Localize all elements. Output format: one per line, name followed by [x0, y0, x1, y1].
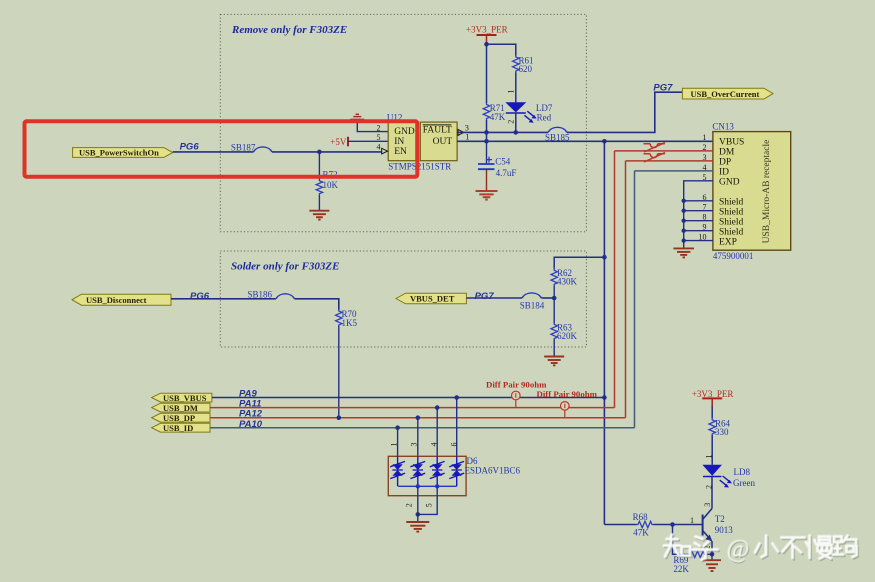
- wire LD7 to FAULT row: [515, 113, 517, 132]
- wire ID vertical: [634, 171, 636, 428]
- wire R71 branch: [486, 44, 488, 103]
- svg-text:Green: Green: [733, 478, 755, 488]
- node base R69 tap: [670, 522, 675, 527]
- svg-text:USB_VBUS: USB_VBUS: [163, 393, 207, 403]
- TVS diode D6 cell 4: [449, 456, 464, 486]
- LED LD8: [702, 465, 732, 488]
- wire VBUS_DET to SB184: [466, 297, 522, 299]
- svg-text:@: @: [727, 536, 750, 563]
- flag USB_DP: [152, 413, 210, 423]
- solder bridge SB185: [545, 127, 570, 142]
- svg-text:475900001: 475900001: [713, 251, 754, 261]
- svg-text:PG7: PG7: [653, 83, 673, 94]
- wire PG6 to SB187: [173, 151, 254, 153]
- svg-text:Solder only for F303ZE: Solder only for F303ZE: [231, 261, 339, 273]
- flag VBUS_DET: [396, 293, 466, 304]
- solder bridge SB187: [231, 143, 272, 153]
- svg-text:5: 5: [377, 133, 381, 142]
- svg-text:EXP: EXP: [719, 237, 737, 247]
- wire SB185 to corner and up to PG7 flag: [567, 92, 682, 132]
- wire SB187 to U12 EN: [272, 151, 382, 153]
- svg-text:GND: GND: [394, 127, 415, 137]
- svg-text:620: 620: [519, 64, 533, 74]
- wire SB186 to R70: [295, 299, 339, 310]
- node emitter ground: [710, 552, 715, 557]
- svg-text:DM: DM: [719, 148, 735, 158]
- svg-text:PG7: PG7: [475, 291, 495, 302]
- svg-text:Shield: Shield: [719, 218, 744, 228]
- node bus pin5: [435, 484, 439, 488]
- wire R64 to LD8: [711, 435, 713, 465]
- ground under CN13 shield: [673, 248, 694, 257]
- dashed region: Solder only for F303ZE: [220, 251, 586, 347]
- dashed region: Remove only for F303ZE: [220, 14, 586, 231]
- svg-text:USB_DP: USB_DP: [163, 413, 195, 423]
- svg-text:Shield: Shield: [719, 198, 744, 208]
- svg-text:SB186: SB186: [248, 290, 273, 300]
- node bus pin2: [416, 484, 420, 488]
- wire DP row PA12: [210, 417, 626, 419]
- svg-text:GND: GND: [719, 178, 740, 188]
- wire power node to R61 top: [487, 44, 516, 55]
- svg-text:Red: Red: [537, 113, 552, 123]
- ground under R63: [544, 357, 564, 366]
- svg-text:2: 2: [405, 503, 414, 507]
- directive circle DP pair: [561, 402, 570, 418]
- wire C54 branch: [486, 141, 488, 163]
- transistor T2 9013: [703, 509, 734, 542]
- wire node to R63: [553, 298, 555, 323]
- svg-text:PG6: PG6: [180, 141, 200, 152]
- wire USB_Disconnect to SB186: [171, 298, 276, 300]
- ground under R72: [309, 211, 329, 220]
- svg-text:1: 1: [507, 90, 516, 94]
- wire DM vertical: [614, 151, 616, 408]
- wire to D6 ground: [417, 514, 419, 521]
- svg-text:DP: DP: [719, 158, 731, 168]
- highlight red rectangle: [25, 121, 418, 177]
- wire D6 pin3 drop: [417, 418, 419, 457]
- node DM to D6 pin4: [435, 405, 440, 410]
- node VBUS to D6 pin6: [454, 395, 459, 400]
- resistor R69 22K: [673, 551, 706, 574]
- diff pair crossover glyph DP: [644, 153, 666, 162]
- svg-text:2: 2: [377, 123, 381, 132]
- svg-text:1: 1: [465, 132, 469, 141]
- svg-text:+3V3_PER: +3V3_PER: [466, 25, 508, 35]
- wire +5V to U12 IN pin5: [348, 140, 388, 142]
- svg-text:Remove only for F303ZE: Remove only for F303ZE: [231, 24, 347, 36]
- svg-text:ESDA6V1BC6: ESDA6V1BC6: [465, 466, 521, 476]
- svg-text:620K: 620K: [557, 331, 578, 341]
- svg-text:C54: C54: [495, 157, 511, 167]
- wire D6 pin1 drop: [397, 428, 399, 457]
- svg-text:USB_OverCurrent: USB_OverCurrent: [691, 89, 760, 99]
- U12 right body FAULT OUT: [420, 122, 457, 161]
- wire R62 top to trunk: [554, 257, 604, 269]
- wire shield pin6: [684, 200, 713, 202]
- svg-text:1: 1: [690, 516, 694, 525]
- svg-text:5: 5: [424, 503, 433, 507]
- diode array D6 box: [388, 456, 466, 495]
- wire R61 to LD7: [515, 73, 517, 103]
- svg-text:LD8: LD8: [734, 467, 751, 477]
- svg-text:USB_PowerSwitchOn: USB_PowerSwitchOn: [79, 148, 159, 158]
- wire SB184 to divider: [541, 297, 554, 299]
- svg-text:VBUS: VBUS: [719, 138, 744, 148]
- CN13 pin numbers: [699, 133, 707, 242]
- op-amp U12 STMPS2151STR left body: [388, 122, 416, 161]
- pin 4 EN input arrow: [382, 148, 388, 154]
- wire D6 pin4 drop: [436, 408, 438, 457]
- watermark 知乎 @小不慢跑: [665, 536, 858, 561]
- svg-text:VBUS_DET: VBUS_DET: [410, 294, 455, 304]
- svg-text:EN: EN: [394, 147, 407, 157]
- ground above pin2 (flipped): [350, 114, 364, 119]
- power +3V3_PER bottom: [692, 389, 734, 406]
- resistor R71 47K: [483, 103, 505, 122]
- resistor R68 47K: [633, 512, 654, 538]
- resistor R62 430K: [551, 268, 578, 287]
- wire DP vertical: [625, 161, 627, 418]
- svg-text:USB_Disconnect: USB_Disconnect: [86, 295, 147, 305]
- pin 3 output arrow: [458, 129, 464, 135]
- wire DM row PA11: [210, 407, 615, 409]
- svg-text:SB187: SB187: [231, 143, 256, 153]
- svg-text:USB_DM: USB_DM: [163, 403, 198, 413]
- node R71 on FAULT row: [484, 130, 489, 135]
- node pin8: [682, 219, 686, 223]
- wire EXP pin10: [684, 240, 713, 242]
- wire R72 to ground: [318, 195, 320, 211]
- node pin7: [682, 209, 686, 213]
- svg-text:6: 6: [450, 443, 459, 447]
- svg-text:1: 1: [704, 455, 713, 459]
- wire R71 to FAULT row: [486, 120, 488, 141]
- wire D6 pin5 down: [418, 486, 437, 514]
- svg-text:R68: R68: [633, 512, 649, 522]
- svg-text:+5V: +5V: [330, 137, 347, 147]
- resistor R63 620K: [551, 323, 578, 342]
- svg-text:USB_ID: USB_ID: [163, 423, 193, 433]
- svg-text:1K5: 1K5: [342, 318, 358, 328]
- wire DM net to CN13 pin2: [615, 150, 713, 152]
- svg-text:10K: 10K: [323, 180, 339, 190]
- wire DP net to CN13 pin3: [626, 160, 713, 162]
- svg-text:3: 3: [465, 123, 469, 132]
- node DP R70: [337, 415, 342, 420]
- svg-text:2: 2: [506, 120, 515, 124]
- wire LD8 to T2 collector: [711, 477, 713, 509]
- svg-text:Diff Pair 90ohm: Diff Pair 90ohm: [486, 380, 547, 390]
- svg-text:22K: 22K: [673, 564, 689, 574]
- wire R68 to T2 base: [654, 524, 703, 526]
- node ID to D6 pin1: [395, 425, 400, 430]
- svg-text:Shield: Shield: [719, 228, 744, 238]
- svg-text:47K: 47K: [633, 528, 649, 538]
- wire C54 to ground: [486, 170, 488, 191]
- wire R69 to emitter: [706, 553, 712, 555]
- wire OUT row pin1 to CN13: [457, 140, 713, 142]
- resistor R61 620: [513, 56, 534, 74]
- node DP to D6 pin3: [416, 415, 421, 420]
- svg-text:3: 3: [410, 443, 419, 447]
- ground under D6: [406, 522, 429, 532]
- resistor R72 10K: [316, 170, 338, 196]
- flag USB_Disconnect: [72, 294, 171, 305]
- svg-text:LD7: LD7: [536, 103, 553, 113]
- wire D6 pin6 drop: [456, 398, 458, 457]
- svg-text:+3V3_PER: +3V3_PER: [692, 389, 734, 399]
- diff pair crossover glyph DM: [644, 143, 666, 152]
- svg-text:IN: IN: [394, 137, 404, 147]
- node vertical trunk on OUT row: [602, 139, 607, 144]
- LED LD7: [505, 102, 536, 122]
- svg-text:STMPS2151STR: STMPS2151STR: [388, 161, 451, 171]
- wire GND pin5: [684, 181, 713, 248]
- resistor R70 1K5: [336, 309, 358, 328]
- wire T2 emitter down: [711, 541, 713, 554]
- wire U12 GND pin2: [357, 120, 388, 132]
- svg-text:Diff Pair 90ohm: Diff Pair 90ohm: [537, 389, 598, 399]
- svg-text:3: 3: [703, 503, 712, 507]
- svg-text:D6: D6: [467, 456, 478, 466]
- svg-text:FAULT: FAULT: [423, 125, 452, 135]
- wire power to R64: [711, 406, 713, 418]
- capacitor C54 4.7uF: [478, 157, 516, 179]
- TVS diode D6 cell 1: [390, 456, 405, 486]
- svg-text:USB_Micro-AB receptacle: USB_Micro-AB receptacle: [762, 140, 772, 244]
- node LD7 on FAULT row: [514, 130, 519, 135]
- node trunk R62: [602, 255, 607, 260]
- svg-text:4: 4: [377, 142, 381, 151]
- wire shield pin9: [684, 230, 713, 232]
- node pin2 pin5 join: [416, 512, 421, 517]
- node power junction: [484, 42, 489, 47]
- wire ID row PA10: [210, 427, 635, 429]
- flag USB_PowerSwitchOn: [73, 148, 173, 158]
- node junction R72 tap: [317, 150, 322, 155]
- wire D6 internal bus: [398, 485, 456, 487]
- svg-text:1: 1: [390, 443, 399, 447]
- flag USB_VBUS: [152, 393, 212, 403]
- flag USB_DM: [152, 403, 210, 413]
- TVS diode D6 cell 2: [410, 456, 425, 486]
- power +5V: [330, 137, 348, 147]
- wire node to R72: [318, 152, 320, 180]
- directive circle DM pair: [512, 391, 521, 407]
- node pin9: [682, 229, 686, 233]
- svg-text:1: 1: [703, 133, 707, 142]
- wire shield pin7: [684, 210, 713, 212]
- wire R68 feed: [604, 524, 636, 526]
- wire R63 to ground: [553, 340, 555, 357]
- node pin10: [682, 238, 686, 242]
- ground under C54: [476, 191, 498, 200]
- svg-text:330: 330: [715, 427, 729, 437]
- wire emitter to ground: [711, 554, 713, 560]
- wire R70 to DP row: [338, 326, 340, 418]
- wire D6 pin2 down: [417, 486, 419, 514]
- wire VBUS row PA9: [212, 397, 605, 399]
- connector CN13 body: [712, 121, 790, 261]
- flag USB_OverCurrent: [682, 88, 773, 99]
- svg-text:47K: 47K: [490, 112, 506, 122]
- node divider junction: [552, 296, 557, 301]
- wire FAULT row pin3: [457, 131, 548, 133]
- svg-text:4.7uF: 4.7uF: [496, 168, 517, 178]
- resistor R64 330: [709, 418, 731, 437]
- power +3V3_PER top: [466, 25, 508, 45]
- wire ID net to CN13 pin4: [635, 170, 713, 172]
- wire R62 to node: [553, 286, 555, 299]
- svg-text:4: 4: [430, 443, 439, 447]
- svg-text:9013: 9013: [715, 525, 734, 535]
- solder bridge SB184: [520, 293, 545, 310]
- svg-text:Shield: Shield: [719, 208, 744, 218]
- wire shield pin8: [684, 220, 713, 222]
- wire VBUS trunk vertical: [603, 141, 605, 524]
- ground under T2: [703, 560, 721, 571]
- wire base branch to R69: [673, 525, 690, 555]
- node pin6: [682, 199, 686, 203]
- solder bridge SB186: [248, 290, 295, 300]
- node VBUS trunk corner: [602, 395, 607, 400]
- TVS diode D6 cell 3: [430, 456, 445, 486]
- svg-text:ID: ID: [719, 168, 729, 178]
- svg-text:PG6: PG6: [190, 291, 210, 302]
- svg-text:CN13: CN13: [712, 121, 734, 131]
- flag USB_ID: [152, 423, 210, 433]
- node C54 branch on OUT row: [484, 139, 489, 144]
- svg-text:SB184: SB184: [520, 300, 545, 310]
- svg-text:T2: T2: [715, 514, 725, 524]
- svg-text:430K: 430K: [557, 277, 578, 287]
- svg-text:OUT: OUT: [433, 137, 453, 147]
